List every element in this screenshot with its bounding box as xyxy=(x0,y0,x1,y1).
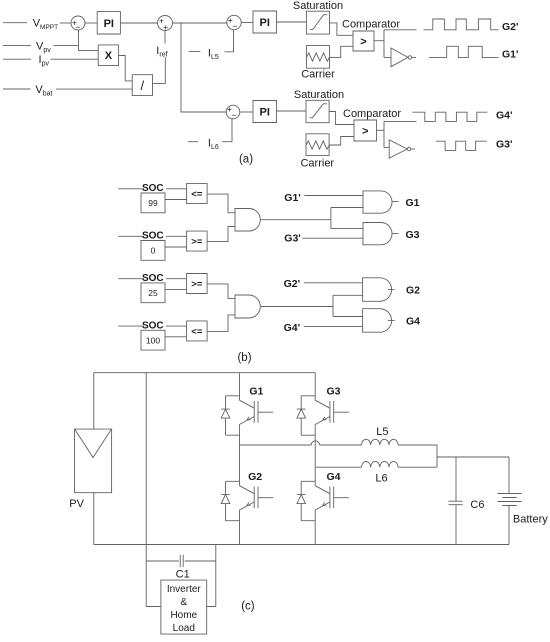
wire X output to divider xyxy=(119,56,133,81)
AND gate A3 (G3) xyxy=(363,223,392,245)
inductor L5 xyxy=(362,439,399,445)
svg-text:G2': G2' xyxy=(502,21,519,33)
PV top lead xyxy=(93,373,95,429)
wire S3 to PI2 xyxy=(241,22,253,24)
ladder left vertical xyxy=(145,561,147,607)
svg-text:G4': G4' xyxy=(496,110,513,122)
svg-text:Comparator: Comparator xyxy=(343,108,401,120)
multiplier block X xyxy=(98,45,118,66)
svg-text:Battery: Battery xyxy=(513,514,548,526)
svg-text:G3': G3' xyxy=(496,139,513,151)
svg-text:<=: <= xyxy=(191,326,203,337)
wire PI1 to summing S2 xyxy=(120,22,157,24)
svg-text:−: − xyxy=(75,22,80,32)
svg-text:>=: >= xyxy=(191,279,203,290)
comparison box >= row 2 xyxy=(187,231,208,251)
wire I_L5 to S3 minus input xyxy=(225,30,234,52)
wire G4 prime to AND6 xyxy=(304,326,363,328)
wire PI3 to saturation 2 xyxy=(277,110,307,112)
svg-text:G3': G3' xyxy=(284,233,301,245)
PI controller block PI3 (current loop 2) xyxy=(253,101,277,123)
ladder right vertical xyxy=(215,545,217,607)
svg-text:G1': G1' xyxy=(502,49,519,61)
svg-text:G1': G1' xyxy=(284,192,301,204)
leg2 phase wire to L6 xyxy=(315,466,361,468)
comparator block 2 xyxy=(354,120,377,141)
battery symbol xyxy=(498,494,522,506)
svg-text:25: 25 xyxy=(148,288,158,298)
svg-text:0: 0 xyxy=(151,245,156,255)
leg 1 vertical segments xyxy=(239,373,241,545)
comparator block 1 xyxy=(353,31,374,51)
diode D2 (antiparallel diode) xyxy=(221,481,230,520)
diode D4 (antiparallel diode) xyxy=(297,481,306,520)
C6 top lead xyxy=(455,457,457,501)
wire carrier 2 to comparator 2 xyxy=(329,137,354,146)
carrier 2 triangle-wave icon xyxy=(306,141,329,149)
SOC threshold value box 100 xyxy=(141,330,165,350)
svg-text:(a): (a) xyxy=(239,154,253,166)
svg-text:G4': G4' xyxy=(284,322,301,334)
svg-text:(b): (b) xyxy=(237,352,251,364)
SOC input wire row 2 xyxy=(118,235,186,237)
summing junction S3 xyxy=(227,15,241,31)
transistor Q1 (IGBT) xyxy=(226,396,274,435)
PV panel symbol xyxy=(75,429,112,493)
wire I_ref to S2 plus input xyxy=(164,31,166,44)
svg-text:G2: G2 xyxy=(406,285,420,297)
transistor Q3 (IGBT) xyxy=(301,396,349,435)
wire SOC value 100 to comparison box xyxy=(165,336,187,338)
AND3 output dash xyxy=(392,233,399,235)
wire I_pv to X block xyxy=(51,58,99,60)
wire SOC value 0 to comparison box xyxy=(165,246,187,248)
svg-text:X: X xyxy=(105,50,113,62)
SOC input wire row 4 xyxy=(118,325,186,327)
svg-text:Vbat: Vbat xyxy=(35,84,52,98)
wire G1 prime to AND2 xyxy=(305,195,364,197)
svg-text:>=: >= xyxy=(191,237,203,248)
svg-text:G3: G3 xyxy=(406,229,420,241)
wire SOC value 99 to comparison box xyxy=(165,199,187,201)
transistor Q4 (IGBT) xyxy=(301,481,349,520)
transistor Q2 (IGBT) xyxy=(226,481,274,520)
svg-text:Load: Load xyxy=(173,623,195,634)
svg-text:Saturation: Saturation xyxy=(293,0,343,12)
svg-text:PI: PI xyxy=(260,17,270,29)
svg-text:/: / xyxy=(141,78,145,93)
comparator 1 output split xyxy=(374,30,417,58)
inverter (NOT) gate 2 xyxy=(389,140,415,158)
top DC bus xyxy=(94,372,315,374)
summing junction S4 xyxy=(226,104,240,120)
comparison box >= row 3 xyxy=(187,274,208,294)
svg-text:IL5: IL5 xyxy=(208,48,219,62)
wire AND4 output to fanout node xyxy=(261,306,333,308)
wire saturation 2 to comparator 2 xyxy=(329,112,354,125)
saturation 1 curve icon xyxy=(310,15,327,30)
svg-text:C6: C6 xyxy=(470,499,484,511)
wire S4 to PI3 xyxy=(240,111,253,113)
svg-text:L5: L5 xyxy=(376,426,388,438)
C6 bottom lead xyxy=(455,505,457,545)
square wave G2 prime xyxy=(424,19,499,30)
battery bottom lead xyxy=(508,506,510,545)
svg-text:Ipv: Ipv xyxy=(39,54,50,68)
SOC threshold value box 99 xyxy=(141,193,165,213)
svg-text:−: − xyxy=(232,21,237,31)
wire G2 prime to AND5 xyxy=(304,282,363,284)
svg-text:+: + xyxy=(163,22,168,32)
feedback label dash for I_L5 xyxy=(189,51,201,53)
svg-text:Comparator: Comparator xyxy=(342,19,400,31)
svg-text:(c): (c) xyxy=(241,601,255,613)
AND gate A5 (G2) xyxy=(363,278,392,302)
C1 top rail xyxy=(146,560,216,562)
input stub I_pv xyxy=(3,58,31,60)
svg-text:G3: G3 xyxy=(327,385,341,397)
wire comparison 4 output to AND4 xyxy=(207,315,235,332)
svg-text:C1: C1 xyxy=(176,569,190,581)
svg-text:&: & xyxy=(180,597,187,608)
divider block / xyxy=(132,75,152,96)
carrier 1 triangle-wave icon xyxy=(307,53,330,61)
svg-text:L6: L6 xyxy=(375,473,387,485)
svg-text:>: > xyxy=(360,36,366,48)
wire V_pv branch up to S1 minus and right to X block xyxy=(79,30,99,51)
saturation 2 curve icon xyxy=(310,104,327,118)
svg-text:PI: PI xyxy=(260,106,270,118)
wire L5 to join node xyxy=(398,445,437,467)
fanout vertical rows 3-4 xyxy=(333,295,363,316)
svg-text:−: − xyxy=(231,110,236,120)
svg-text:PV: PV xyxy=(69,498,84,510)
inductor L6 xyxy=(362,461,399,467)
svg-text:G4: G4 xyxy=(327,471,341,483)
wire carrier 1 to comparator 1 xyxy=(330,46,354,57)
wire comparison 1 output to AND1 xyxy=(207,194,235,213)
wire PI2 to saturation 1 xyxy=(277,21,307,23)
svg-text:Carrier: Carrier xyxy=(300,158,334,170)
svg-text:Saturation: Saturation xyxy=(294,89,344,101)
saturation block 1 xyxy=(306,11,329,34)
wire comparison 3 output to AND4 xyxy=(207,284,235,299)
branch wire down to lower channel xyxy=(181,23,226,112)
summing junction S1 xyxy=(71,16,85,32)
square wave G1 prime xyxy=(429,46,499,57)
svg-text:Carrier: Carrier xyxy=(301,69,335,81)
square wave G4 prime xyxy=(412,112,487,121)
svg-text:PI: PI xyxy=(104,18,114,30)
SOC input wire row 3 xyxy=(118,278,186,280)
leg 2 vertical segments xyxy=(314,373,316,545)
PI controller block PI2 (current loop 1) xyxy=(253,11,277,33)
SOC threshold value box 25 xyxy=(141,283,165,303)
fanout vertical rows 1-2 xyxy=(331,208,363,229)
leg1 phase wire to L5 with hop over leg2 xyxy=(240,444,362,446)
svg-text:Inverter: Inverter xyxy=(167,584,202,595)
AND gate A4 xyxy=(235,295,260,318)
inverter and home load block xyxy=(161,580,207,634)
wire S2 output with branch node xyxy=(173,22,227,24)
svg-text:G4: G4 xyxy=(406,316,420,328)
diode D3 (antiparallel diode) xyxy=(297,396,306,435)
svg-text:G2': G2' xyxy=(284,278,301,290)
SOC threshold value box 0 xyxy=(141,241,165,261)
svg-text:>: > xyxy=(362,125,368,137)
svg-text:<=: <= xyxy=(191,189,203,200)
comparison box <= row 4 xyxy=(187,321,208,341)
diode D1 (antiparallel diode) xyxy=(221,396,230,435)
svg-text:IL6: IL6 xyxy=(208,138,219,152)
svg-text:G1: G1 xyxy=(249,385,263,397)
svg-text:VMPPT: VMPPT xyxy=(33,18,58,32)
wire G3 prime to AND3 xyxy=(302,237,363,239)
comparison box <= row 1 xyxy=(187,184,208,204)
battery top lead xyxy=(508,457,510,494)
wire saturation 1 to comparator 1 xyxy=(330,23,354,35)
wire hop over leg 2 xyxy=(311,441,319,445)
input stub V_MPPT xyxy=(3,22,27,24)
AND gate A2 (G1) xyxy=(363,191,392,213)
wire join node to battery node xyxy=(437,456,509,458)
capacitor C1 xyxy=(180,555,183,567)
input stub V_pv xyxy=(3,44,31,46)
AND gate A1 xyxy=(235,209,260,232)
wire V_bat to divider xyxy=(56,88,132,90)
wire comparison 2 output to AND1 xyxy=(207,227,235,242)
ladder bottom rail xyxy=(146,606,216,608)
svg-text:100: 100 xyxy=(146,335,160,345)
saturation block 2 xyxy=(306,100,329,122)
AND5 output dash xyxy=(388,289,395,291)
SOC input wire row 1 xyxy=(118,188,186,190)
svg-text:Iref: Iref xyxy=(156,45,167,59)
bottom DC bus xyxy=(94,544,509,546)
svg-text:Home: Home xyxy=(170,610,197,621)
wire V_MPPT to summing S1 xyxy=(60,22,71,24)
square wave G3 prime xyxy=(436,141,487,150)
mid vertical bus (DC link tap) xyxy=(145,373,147,561)
capacitor C6 xyxy=(449,501,463,505)
comparator 2 output split xyxy=(377,121,417,147)
svg-text:99: 99 xyxy=(148,198,158,208)
carrier block 2 xyxy=(306,134,329,156)
AND6 output dash xyxy=(388,320,395,322)
PI controller block PI1 (MPPT loop) xyxy=(97,12,120,34)
input stub V_bat xyxy=(3,88,31,90)
wire SOC value 25 to comparison box xyxy=(165,288,187,290)
wire divider output up to I_ref xyxy=(153,57,166,83)
summing junction S2 xyxy=(158,15,173,32)
wire L6 to join node xyxy=(398,466,437,468)
svg-text:G1: G1 xyxy=(406,197,420,209)
PV bottom lead xyxy=(93,493,95,545)
wire AND1 output to fanout node xyxy=(260,219,331,221)
inverter (NOT) gate 1 xyxy=(391,48,416,67)
svg-text:G2: G2 xyxy=(248,471,262,483)
feedback label dash for I_L6 xyxy=(188,141,198,143)
wire V_pv xyxy=(53,44,78,46)
AND gate A6 (G4) xyxy=(363,309,392,333)
carrier block 1 xyxy=(306,46,329,69)
wire I_L6 to S4 minus input xyxy=(222,119,232,142)
svg-text:Vpv: Vpv xyxy=(36,41,51,55)
wire S1 to PI1 xyxy=(85,22,97,24)
AND2 output dash xyxy=(392,201,399,203)
